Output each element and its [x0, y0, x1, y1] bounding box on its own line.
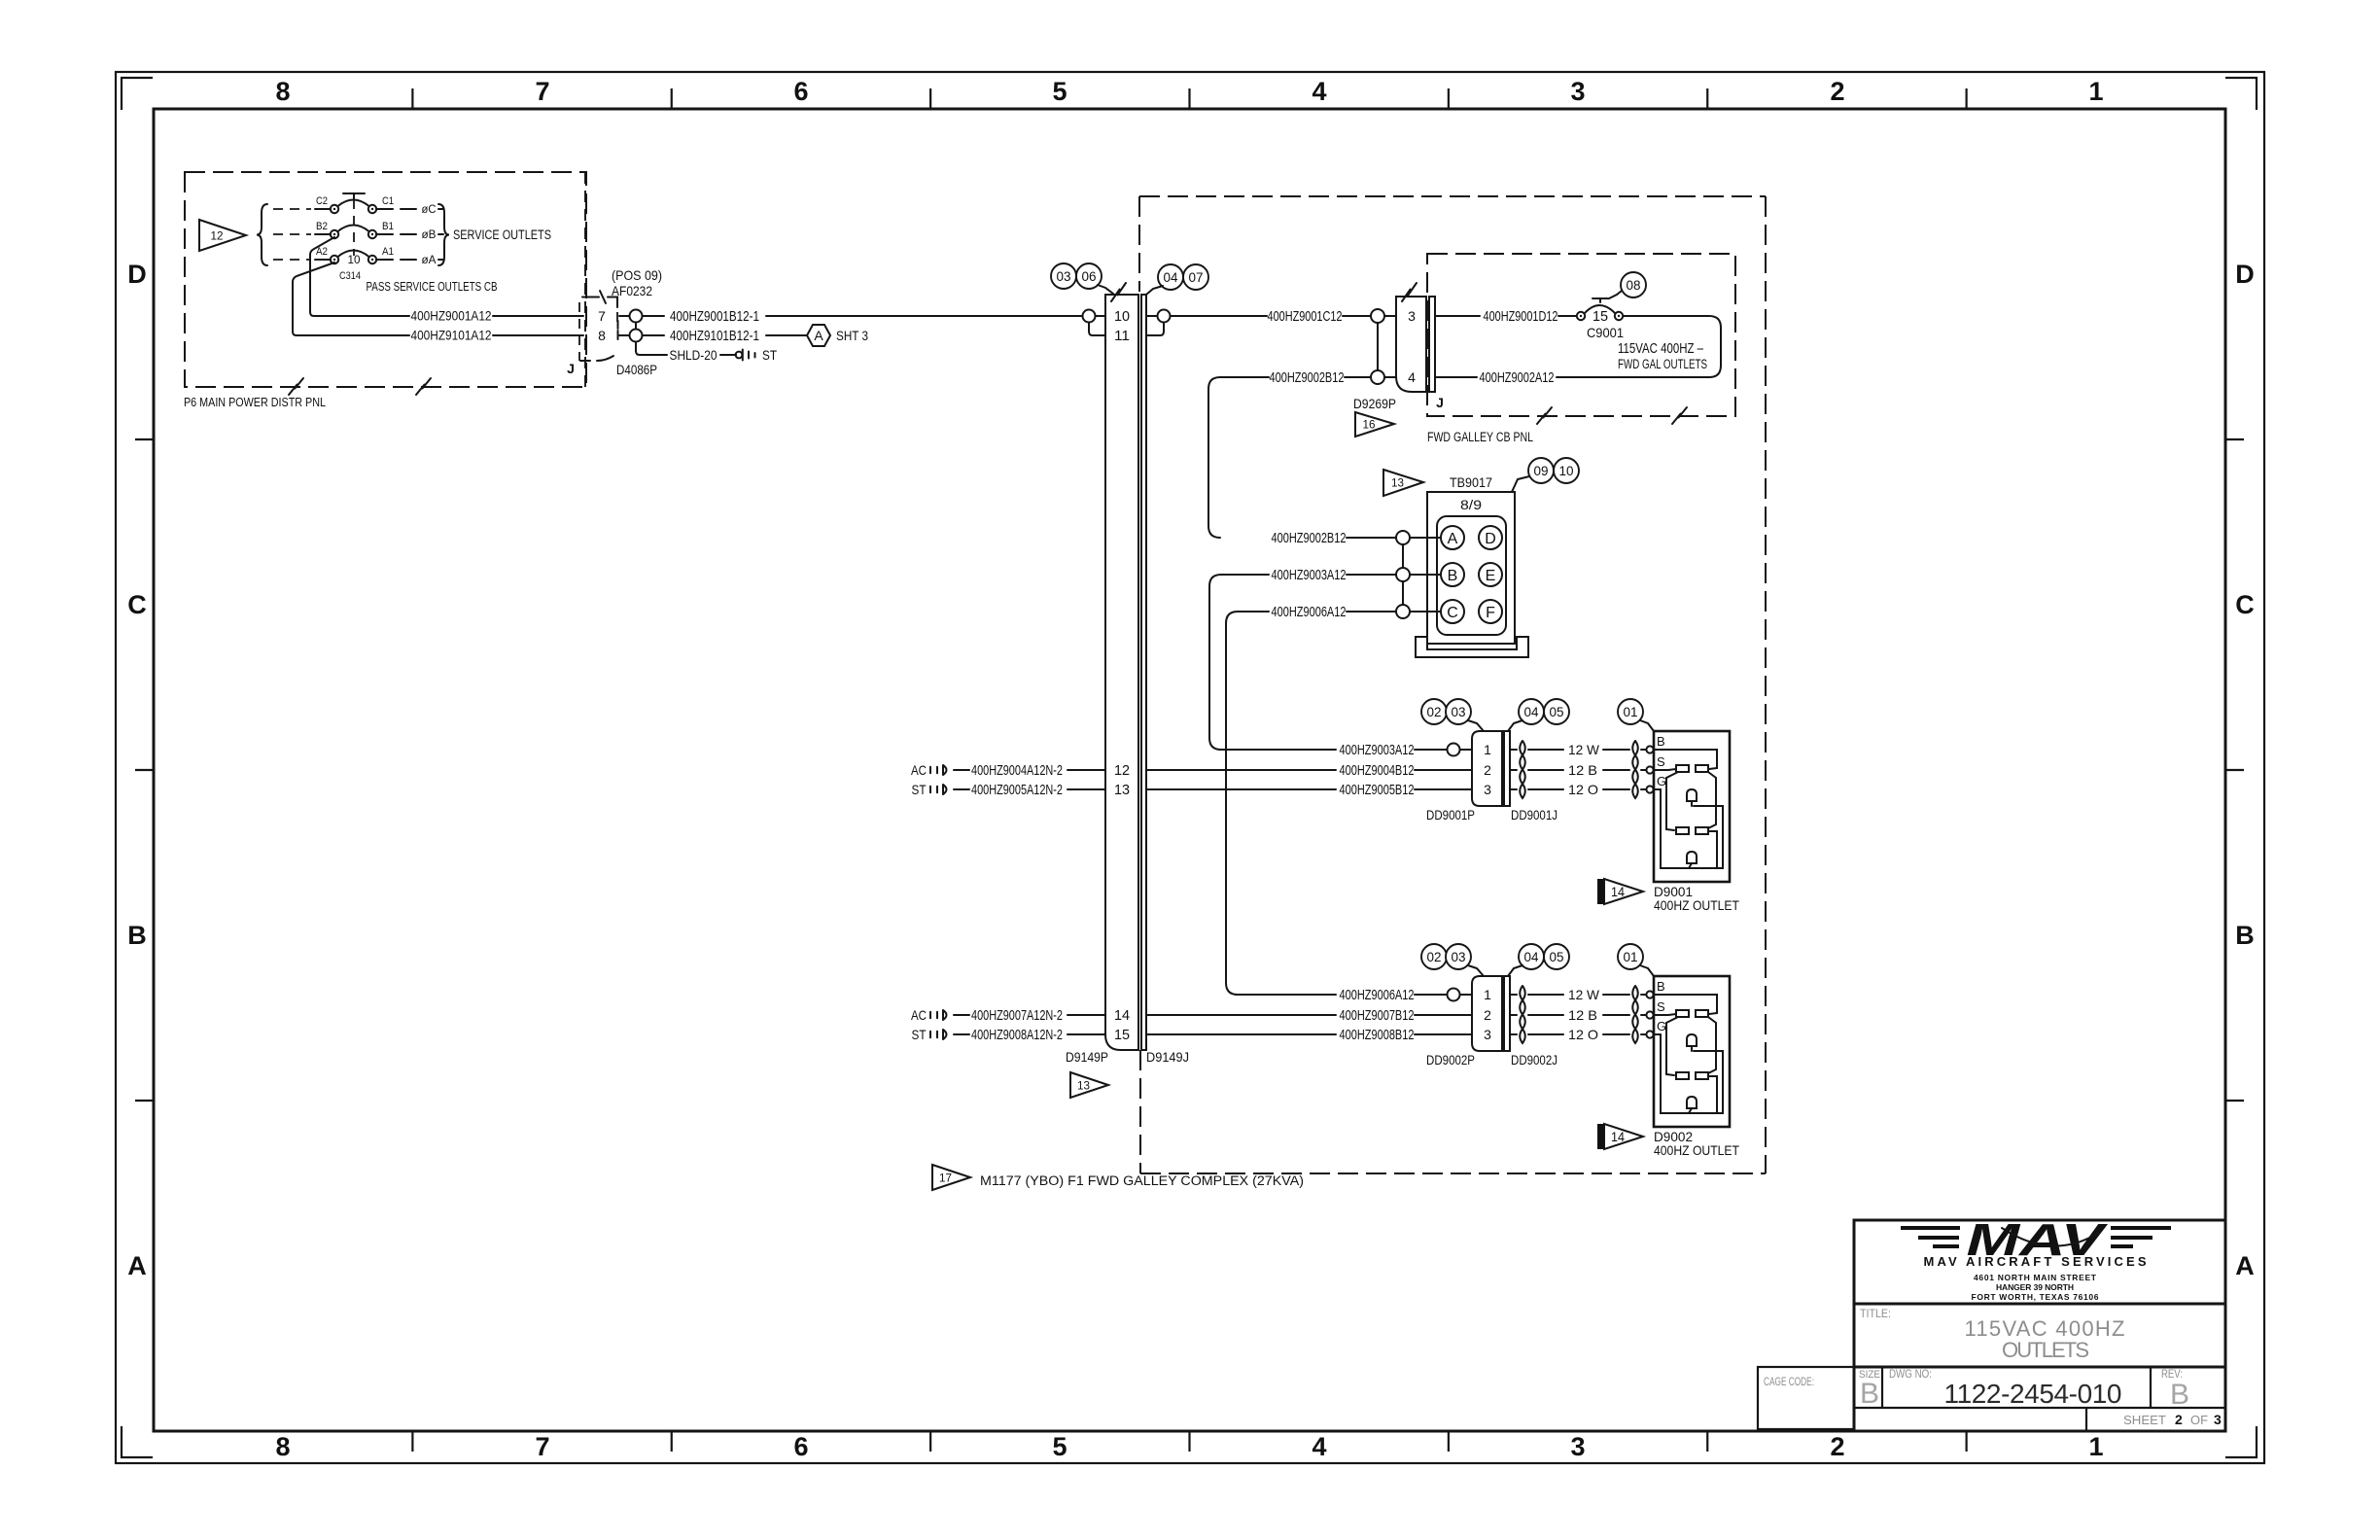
svg-text:6: 6 — [793, 1432, 808, 1461]
svg-text:3: 3 — [1484, 782, 1491, 797]
svg-text:ST: ST — [762, 348, 777, 363]
svg-text:C: C — [127, 590, 147, 619]
svg-text:12 W: 12 W — [1568, 742, 1600, 757]
svg-text:C: C — [2235, 590, 2255, 619]
svg-text:G: G — [1657, 1019, 1666, 1033]
svg-text:C: C — [1447, 605, 1458, 621]
svg-text:400HZ9003A12: 400HZ9003A12 — [1272, 567, 1347, 583]
svg-text:G: G — [1657, 774, 1666, 788]
svg-text:øB: øB — [422, 227, 437, 241]
svg-text:400HZ9002B12: 400HZ9002B12 — [1270, 369, 1345, 386]
svg-text:02: 02 — [1427, 704, 1442, 719]
svg-text:C314: C314 — [339, 270, 361, 282]
svg-text:5: 5 — [1052, 77, 1067, 106]
svg-text:DWG NO:: DWG NO: — [1889, 1367, 1932, 1381]
svg-text:TITLE:: TITLE: — [1860, 1307, 1891, 1320]
svg-text:05: 05 — [1550, 949, 1564, 964]
svg-text:5: 5 — [1052, 1432, 1067, 1461]
svg-text:FWD GAL OUTLETS: FWD GAL OUTLETS — [1618, 357, 1707, 371]
svg-text:400HZ9101A12: 400HZ9101A12 — [411, 328, 492, 343]
svg-text:D: D — [127, 260, 147, 289]
svg-text:FWD GALLEY CB PNL: FWD GALLEY CB PNL — [1427, 430, 1533, 444]
svg-text:400HZ OUTLET: 400HZ OUTLET — [1654, 897, 1739, 913]
svg-text:01: 01 — [1624, 704, 1638, 719]
svg-text:400HZ9004B12: 400HZ9004B12 — [1340, 762, 1415, 779]
svg-text:12 B: 12 B — [1568, 762, 1597, 778]
svg-text:1: 1 — [2088, 77, 2103, 106]
svg-text:14: 14 — [1611, 1129, 1625, 1144]
svg-text:400HZ9007A12N-2: 400HZ9007A12N-2 — [971, 1007, 1063, 1024]
svg-text:ST: ST — [912, 782, 927, 797]
svg-text:10: 10 — [1559, 463, 1574, 478]
svg-text:6: 6 — [793, 77, 808, 106]
svg-text:12: 12 — [211, 229, 224, 243]
svg-text:05: 05 — [1550, 704, 1564, 719]
svg-text:2: 2 — [1484, 1007, 1491, 1023]
svg-text:ST: ST — [912, 1027, 927, 1042]
svg-text:D9149P: D9149P — [1066, 1049, 1108, 1065]
svg-text:8: 8 — [598, 328, 606, 343]
svg-text:7: 7 — [535, 1432, 549, 1461]
svg-text:13: 13 — [1391, 476, 1404, 490]
svg-text:16: 16 — [1363, 418, 1376, 432]
svg-text:A: A — [814, 328, 823, 343]
svg-text:8/9: 8/9 — [1460, 497, 1482, 512]
svg-text:11: 11 — [1114, 328, 1130, 344]
svg-text:D: D — [2235, 260, 2255, 289]
svg-text:CAGE CODE:: CAGE CODE: — [1764, 1375, 1814, 1388]
svg-text:P6 MAIN POWER DISTR PNL: P6 MAIN POWER DISTR PNL — [184, 395, 326, 409]
svg-text:SERVICE OUTLETS: SERVICE OUTLETS — [453, 227, 551, 242]
svg-text:03: 03 — [1057, 268, 1071, 284]
svg-text:400HZ9005B12: 400HZ9005B12 — [1340, 782, 1415, 798]
svg-text:øC: øC — [422, 202, 437, 216]
svg-text:15: 15 — [1592, 308, 1608, 325]
svg-text:13: 13 — [1077, 1079, 1090, 1093]
svg-text:TB9017: TB9017 — [1450, 474, 1492, 490]
svg-text:06: 06 — [1082, 268, 1097, 284]
svg-text:02: 02 — [1427, 949, 1442, 964]
svg-text:C2: C2 — [316, 195, 328, 207]
svg-text:2: 2 — [1484, 762, 1491, 778]
svg-text:B2: B2 — [316, 221, 328, 232]
svg-text:400HZ9008A12N-2: 400HZ9008A12N-2 — [971, 1027, 1063, 1043]
svg-text:115VAC 400HZ –: 115VAC 400HZ – — [1618, 340, 1704, 357]
svg-text:4: 4 — [1408, 369, 1416, 385]
svg-text:B1: B1 — [382, 221, 394, 232]
svg-text:400HZ9002B12: 400HZ9002B12 — [1272, 530, 1347, 546]
svg-text:1122-2454-010: 1122-2454-010 — [1944, 1379, 2122, 1409]
svg-text:3: 3 — [1570, 77, 1585, 106]
svg-text:10: 10 — [1114, 308, 1130, 325]
svg-text:DD9001P: DD9001P — [1426, 807, 1475, 822]
svg-text:400HZ9006A12: 400HZ9006A12 — [1272, 604, 1347, 620]
svg-text:OF: OF — [2190, 1413, 2208, 1427]
svg-text:(POS 09): (POS 09) — [612, 267, 662, 283]
svg-text:3: 3 — [1570, 1432, 1585, 1461]
svg-text:SHT 3: SHT 3 — [836, 329, 868, 343]
svg-text:01: 01 — [1624, 949, 1638, 964]
svg-text:400HZ OUTLET: 400HZ OUTLET — [1654, 1142, 1739, 1158]
svg-text:S: S — [1657, 999, 1665, 1014]
svg-text:AC: AC — [911, 762, 927, 778]
svg-text:8: 8 — [275, 1432, 290, 1461]
svg-text:12 O: 12 O — [1568, 1027, 1598, 1042]
svg-text:C9001: C9001 — [1587, 325, 1624, 340]
svg-text:2: 2 — [2175, 1412, 2183, 1427]
svg-text:M1177 (YBO) F1 FWD GALLEY CO: M1177 (YBO) F1 FWD GALLEY COMPLEX (27KVA… — [980, 1173, 1304, 1188]
svg-text:A: A — [1448, 531, 1458, 547]
svg-text:2: 2 — [1830, 1432, 1844, 1461]
svg-text:12 W: 12 W — [1568, 987, 1600, 1002]
svg-text:E: E — [1486, 568, 1496, 584]
svg-text:J: J — [1436, 395, 1444, 410]
svg-text:400HZ9008B12: 400HZ9008B12 — [1340, 1027, 1415, 1043]
svg-text:D9149J: D9149J — [1146, 1049, 1189, 1065]
svg-text:03: 03 — [1452, 949, 1466, 964]
svg-text:4: 4 — [1312, 1432, 1326, 1461]
svg-text:øA: øA — [422, 253, 437, 266]
svg-text:400HZ9005A12N-2: 400HZ9005A12N-2 — [971, 782, 1063, 798]
svg-text:13: 13 — [1114, 782, 1130, 798]
svg-text:1: 1 — [1484, 987, 1491, 1002]
svg-text:DD9001J: DD9001J — [1511, 807, 1557, 822]
svg-text:12: 12 — [1114, 762, 1130, 779]
svg-text:PASS SERVICE OUTLETS CB: PASS SERVICE OUTLETS CB — [367, 279, 498, 294]
svg-text:12 B: 12 B — [1568, 1007, 1597, 1023]
svg-text:400HZ9001A12: 400HZ9001A12 — [411, 308, 492, 324]
svg-text:B: B — [1657, 734, 1665, 749]
svg-text:400HZ9001B12-1: 400HZ9001B12-1 — [670, 308, 759, 325]
svg-text:14: 14 — [1611, 884, 1625, 899]
svg-text:C1: C1 — [382, 195, 394, 207]
svg-text:400HZ9006A12: 400HZ9006A12 — [1340, 987, 1415, 1003]
svg-text:04: 04 — [1524, 704, 1539, 719]
svg-text:J: J — [567, 361, 575, 376]
svg-text:04: 04 — [1164, 269, 1178, 285]
svg-text:3: 3 — [1484, 1027, 1491, 1042]
svg-text:SHLD-20: SHLD-20 — [670, 347, 717, 363]
svg-text:1: 1 — [1484, 742, 1491, 757]
svg-text:17: 17 — [939, 1172, 952, 1185]
svg-text:8: 8 — [275, 77, 290, 106]
svg-text:400HZ9001C12: 400HZ9001C12 — [1268, 308, 1343, 325]
svg-text:10: 10 — [348, 253, 361, 266]
svg-text:F: F — [1486, 605, 1495, 621]
svg-text:1: 1 — [2088, 1432, 2103, 1461]
svg-text:B: B — [127, 921, 147, 950]
svg-text:3: 3 — [2214, 1412, 2222, 1427]
svg-text:AF0232: AF0232 — [612, 283, 652, 298]
svg-text:B: B — [2235, 921, 2255, 950]
svg-text:12 O: 12 O — [1568, 782, 1598, 797]
svg-text:B: B — [1657, 979, 1665, 994]
svg-text:7: 7 — [598, 308, 606, 324]
svg-text:15: 15 — [1114, 1027, 1130, 1043]
svg-text:4601 NORTH MAIN STREET: 4601 NORTH MAIN STREET — [1974, 1273, 2097, 1282]
svg-text:04: 04 — [1524, 949, 1539, 964]
svg-text:A: A — [2235, 1251, 2255, 1280]
svg-text:A: A — [127, 1251, 147, 1280]
svg-text:AC: AC — [911, 1007, 927, 1023]
svg-text:400HZ9003A12: 400HZ9003A12 — [1340, 742, 1415, 758]
svg-text:D: D — [1485, 531, 1496, 547]
svg-text:400HZ9101B12-1: 400HZ9101B12-1 — [670, 328, 759, 344]
svg-text:S: S — [1657, 754, 1665, 769]
svg-text:SHEET: SHEET — [2123, 1413, 2166, 1427]
svg-text:7: 7 — [535, 77, 549, 106]
svg-text:3: 3 — [1408, 308, 1416, 324]
svg-text:HANGER 39 NORTH: HANGER 39 NORTH — [1996, 1282, 2074, 1292]
svg-text:14: 14 — [1114, 1007, 1130, 1024]
svg-text:400HZ9002A12: 400HZ9002A12 — [1480, 369, 1555, 386]
svg-text:4: 4 — [1312, 77, 1326, 106]
svg-text:DD9002J: DD9002J — [1511, 1052, 1557, 1067]
svg-text:FORT WORTH, TEXAS 76106: FORT WORTH, TEXAS 76106 — [1972, 1292, 2099, 1302]
svg-text:D4086P: D4086P — [616, 362, 657, 377]
svg-text:OUTLETS: OUTLETS — [2002, 1338, 2089, 1362]
svg-text:B: B — [1448, 568, 1458, 584]
svg-text:03: 03 — [1452, 704, 1466, 719]
svg-text:B: B — [1860, 1378, 1879, 1410]
svg-text:09: 09 — [1534, 463, 1549, 478]
svg-text:400HZ9007B12: 400HZ9007B12 — [1340, 1007, 1415, 1024]
svg-text:07: 07 — [1189, 269, 1204, 285]
svg-text:A1: A1 — [382, 246, 394, 258]
svg-text:400HZ9001D12: 400HZ9001D12 — [1484, 308, 1558, 325]
svg-text:B: B — [2170, 1379, 2189, 1411]
svg-text:400HZ9004A12N-2: 400HZ9004A12N-2 — [971, 762, 1063, 779]
svg-text:2: 2 — [1830, 77, 1844, 106]
svg-text:D9269P: D9269P — [1353, 396, 1396, 411]
svg-text:DD9002P: DD9002P — [1426, 1052, 1475, 1067]
svg-text:08: 08 — [1627, 277, 1641, 293]
